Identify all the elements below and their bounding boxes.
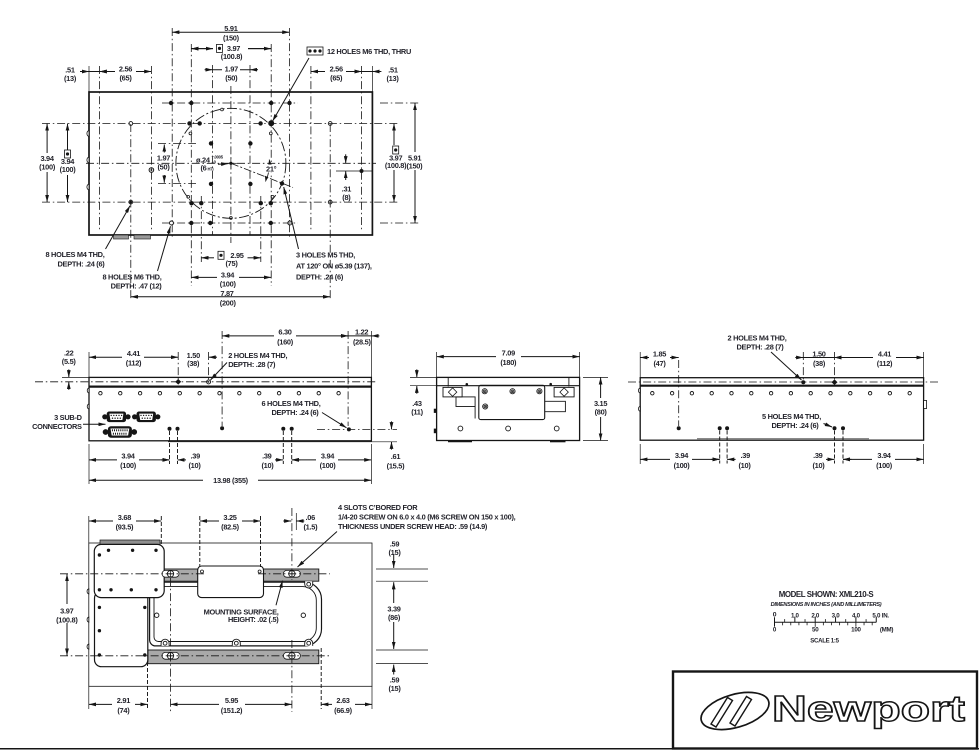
svg-text:(15): (15) <box>388 548 401 557</box>
svg-text:.06: .06 <box>306 513 316 522</box>
svg-text:13.98 (355): 13.98 (355) <box>213 476 249 485</box>
svg-text:(38): (38) <box>187 359 200 368</box>
svg-text:DEPTH: .28 (7): DEPTH: .28 (7) <box>228 360 276 369</box>
svg-text:3.97: 3.97 <box>60 606 73 615</box>
svg-text:.39: .39 <box>191 452 201 461</box>
svg-text:2 HOLES M4 THD,: 2 HOLES M4 THD, <box>228 351 287 360</box>
svg-text:(112): (112) <box>126 359 142 368</box>
svg-text:2.56: 2.56 <box>330 65 343 74</box>
svg-text:(100): (100) <box>39 163 56 172</box>
svg-text:DEPTH: .24 (6): DEPTH: .24 (6) <box>771 421 819 430</box>
svg-text:7.09: 7.09 <box>502 348 515 357</box>
svg-text:(100): (100) <box>220 279 237 288</box>
svg-text:(10): (10) <box>189 461 202 470</box>
svg-text:1.0: 1.0 <box>791 612 800 619</box>
svg-text:(11): (11) <box>411 408 423 417</box>
svg-text:5.91: 5.91 <box>224 24 237 33</box>
svg-text:12 HOLES M6 THD, THRU: 12 HOLES M6 THD, THRU <box>327 47 411 56</box>
svg-text:DEPTH: .24 (6): DEPTH: .24 (6) <box>271 408 319 417</box>
svg-text:DEPTH: .24 (6): DEPTH: .24 (6) <box>57 259 105 268</box>
svg-text:4.41: 4.41 <box>878 349 891 358</box>
svg-text:AT 120° ON ø5.39 (137),: AT 120° ON ø5.39 (137), <box>296 262 372 271</box>
svg-text:(50): (50) <box>157 163 170 172</box>
svg-text:3 SUB-D: 3 SUB-D <box>54 413 83 422</box>
svg-text:21°: 21° <box>266 164 277 173</box>
svg-text:1.97: 1.97 <box>157 153 170 162</box>
svg-text:(160): (160) <box>277 337 294 346</box>
svg-text:(86): (86) <box>388 613 401 622</box>
svg-text:(200): (200) <box>220 298 237 307</box>
svg-text:MODEL SHOWN: XML210-S: MODEL SHOWN: XML210-S <box>779 590 874 599</box>
svg-text:2 HOLES M4 THD,: 2 HOLES M4 THD, <box>727 333 786 342</box>
svg-text:(112): (112) <box>877 359 893 368</box>
svg-text:IN.: IN. <box>882 612 890 619</box>
svg-text:(6: (6 <box>201 163 207 172</box>
svg-text:THICKNESS UNDER SCREW HEAD: .5: THICKNESS UNDER SCREW HEAD: .59 (14.9) <box>338 522 488 531</box>
svg-text:HEIGHT: .02 (.5): HEIGHT: .02 (.5) <box>228 615 279 624</box>
svg-text:6 HOLES M4 THD,: 6 HOLES M4 THD, <box>261 399 320 408</box>
svg-text:5.0: 5.0 <box>872 612 881 619</box>
svg-text:8 HOLES M4 THD,: 8 HOLES M4 THD, <box>45 250 104 259</box>
svg-text:.43: .43 <box>412 399 422 408</box>
svg-text:(180): (180) <box>500 358 517 367</box>
svg-text:3.94: 3.94 <box>221 271 235 280</box>
svg-text:(10): (10) <box>739 461 752 470</box>
svg-text:(65): (65) <box>119 74 132 83</box>
svg-text:DEPTH: .47 (12): DEPTH: .47 (12) <box>111 281 163 290</box>
svg-text:3.94: 3.94 <box>877 451 891 460</box>
svg-text:1.50: 1.50 <box>812 349 825 358</box>
svg-text:6.30: 6.30 <box>278 328 291 337</box>
svg-text:(47): (47) <box>653 359 666 368</box>
svg-text:(75): (75) <box>225 259 238 268</box>
svg-text:3.25: 3.25 <box>223 513 236 522</box>
svg-text:(100): (100) <box>674 461 691 470</box>
svg-text:2.91: 2.91 <box>117 696 130 705</box>
svg-text:(93.5): (93.5) <box>116 522 134 531</box>
svg-text:3.94: 3.94 <box>121 452 135 461</box>
svg-text:(28.5): (28.5) <box>353 337 371 346</box>
svg-text:5 HOLES M4 THD,: 5 HOLES M4 THD, <box>762 412 821 421</box>
svg-text:4.0: 4.0 <box>852 612 861 619</box>
svg-text:DEPTH: .24 (6): DEPTH: .24 (6) <box>296 273 344 282</box>
svg-text:H7): H7) <box>208 166 215 171</box>
svg-text:0: 0 <box>773 611 777 618</box>
svg-text:5.95: 5.95 <box>225 696 238 705</box>
svg-text:7.87: 7.87 <box>220 289 233 298</box>
svg-text:(5.5): (5.5) <box>62 357 77 366</box>
svg-text:(15.5): (15.5) <box>387 461 405 470</box>
svg-text:1.22: 1.22 <box>355 328 368 337</box>
svg-text:(10): (10) <box>812 461 825 470</box>
svg-text:.39: .39 <box>741 451 751 460</box>
svg-text:(100.8): (100.8) <box>385 161 407 170</box>
svg-text:(100.8): (100.8) <box>221 52 243 61</box>
svg-text:(100.8): (100.8) <box>56 616 78 625</box>
svg-text:50: 50 <box>812 627 819 634</box>
svg-text:.39: .39 <box>262 452 272 461</box>
svg-text:(74): (74) <box>117 706 130 715</box>
svg-text:CONNECTORS: CONNECTORS <box>32 422 82 431</box>
svg-text:3.94: 3.94 <box>321 452 335 461</box>
svg-text:(1.5): (1.5) <box>304 522 319 531</box>
svg-text:(13): (13) <box>386 74 399 83</box>
svg-text:3.94: 3.94 <box>675 451 689 460</box>
svg-text:(38): (38) <box>813 359 826 368</box>
svg-text:4 SLOTS C’BORED FOR: 4 SLOTS C’BORED FOR <box>338 503 418 512</box>
svg-text:.61: .61 <box>391 452 401 461</box>
svg-text:Newport: Newport <box>772 688 965 729</box>
svg-text:1/4-20 SCREW ON 6.0 x 4.0 (M6: 1/4-20 SCREW ON 6.0 x 4.0 (M6 SCREW ON 1… <box>338 513 516 522</box>
svg-text:(10): (10) <box>261 461 274 470</box>
svg-text:(13): (13) <box>64 74 77 83</box>
svg-text:2.0: 2.0 <box>811 612 820 619</box>
svg-text:(100): (100) <box>60 165 77 174</box>
svg-text:4.41: 4.41 <box>127 349 140 358</box>
svg-text:(80): (80) <box>595 408 608 417</box>
svg-text:8 HOLES M6 THD,: 8 HOLES M6 THD, <box>102 272 161 281</box>
svg-text:2.63: 2.63 <box>336 696 349 705</box>
svg-text:DEPTH: .28 (7): DEPTH: .28 (7) <box>736 342 784 351</box>
svg-text:(151.2): (151.2) <box>221 706 243 715</box>
svg-text:3 HOLES M5 THD,: 3 HOLES M5 THD, <box>296 251 355 260</box>
svg-text:(82.5): (82.5) <box>221 522 239 531</box>
svg-text:(50): (50) <box>225 74 238 83</box>
svg-text:(65): (65) <box>330 74 343 83</box>
svg-text:(100): (100) <box>876 461 893 470</box>
svg-text:(15): (15) <box>388 684 401 693</box>
svg-text:3.68: 3.68 <box>118 513 131 522</box>
svg-text:(100): (100) <box>120 461 137 470</box>
svg-text:(66.9): (66.9) <box>334 706 352 715</box>
svg-text:(150): (150) <box>223 34 240 43</box>
svg-text:(100): (100) <box>320 461 337 470</box>
svg-text:2.56: 2.56 <box>119 65 132 74</box>
svg-text:1.97: 1.97 <box>225 65 238 74</box>
svg-text:100: 100 <box>851 627 861 634</box>
svg-text:(150): (150) <box>406 162 423 171</box>
svg-text:(8): (8) <box>342 193 351 202</box>
svg-text:SCALE 1:5: SCALE 1:5 <box>810 637 839 644</box>
svg-text:.39: .39 <box>813 451 823 460</box>
svg-text:(MM): (MM) <box>880 627 894 634</box>
svg-text:1.85: 1.85 <box>653 349 666 358</box>
svg-text:3.0: 3.0 <box>832 612 841 619</box>
svg-text:DIMENSIONS IN INCHES (AND MILL: DIMENSIONS IN INCHES (AND MILLIMETERS) <box>771 602 882 608</box>
